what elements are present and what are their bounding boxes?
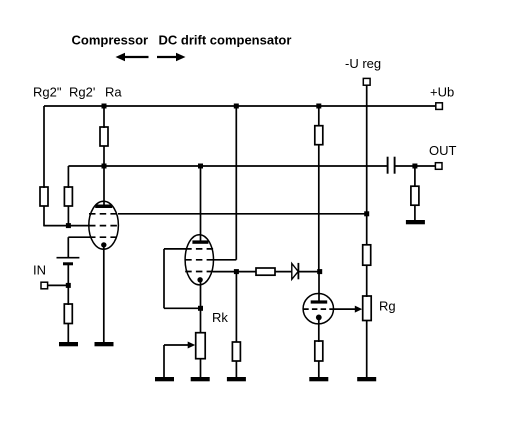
node junction anode V2 on y166 bus: [198, 164, 203, 169]
resistor input bias: [64, 304, 72, 324]
resistor V3 anode load: [315, 126, 323, 145]
wire V2 cathode to Rk: [200, 280, 202, 334]
label Compressor: [72, 32, 149, 47]
ground Rg: [357, 377, 376, 381]
wire Rg pot to ground: [366, 321, 368, 378]
resistor V3 cathode: [315, 341, 323, 361]
label OUT: [429, 143, 457, 158]
wire -U reg vertical: [366, 85, 368, 245]
label Rg2': [69, 85, 95, 100]
wire screen bus V1 to -U reg line: [118, 213, 367, 215]
tube V2 cathode dot: [197, 277, 202, 282]
wire load resistor to ground: [414, 205, 416, 220]
wire OUT junction to load resistor: [414, 166, 416, 187]
wire Ra to anode bus: [103, 146, 105, 166]
node junction diode / V3 anode: [317, 269, 322, 274]
resistor series (suppressor to diode): [256, 268, 275, 275]
wire anode bus y=166 to output capacitor: [68, 165, 387, 167]
tube V1 envelope: [89, 201, 119, 249]
wire diode junction to V3 anode: [318, 272, 320, 301]
battery positive plate: [57, 257, 80, 259]
label +Ub: [430, 85, 454, 100]
node junction cathode / feedback: [198, 306, 203, 311]
svg-text:Rg2': Rg2': [69, 85, 95, 100]
label Rg: [379, 299, 396, 314]
wire +Ub bus to Ra: [103, 106, 105, 128]
wire input resistor to ground: [67, 324, 69, 343]
label IN: [33, 263, 46, 278]
tube V2 screen grid (dashed): [185, 259, 213, 261]
wire capacitor to OUT terminal: [395, 165, 436, 167]
tube V3 cathode dot: [316, 315, 322, 321]
terminal IN: [41, 282, 48, 289]
wire junction to input resistor: [67, 285, 69, 305]
node junction anode resistor top on +Ub bus: [316, 104, 321, 109]
terminal +Ub: [436, 103, 443, 110]
svg-text:OUT: OUT: [429, 143, 457, 158]
wire +Ub bus to anode resistor of V3: [318, 106, 320, 127]
potentiometer Rg: [363, 296, 372, 321]
wire Rg2" to grid line: [43, 206, 45, 226]
tube V3 envelope: [303, 294, 333, 324]
ground Rk wiper: [155, 377, 174, 381]
battery negative plate: [63, 262, 73, 265]
svg-text:Rk: Rk: [212, 310, 228, 325]
wire Rg2' bottom to grid junction: [67, 206, 69, 226]
wire suppressor V1 to battery: [68, 237, 90, 258]
svg-text:Rg2": Rg2": [33, 85, 62, 100]
node junction IN: [66, 283, 71, 288]
node junction anode V1 on y166 bus: [102, 164, 107, 169]
wire series resistor to diode: [275, 271, 292, 273]
svg-text:IN: IN: [33, 263, 46, 278]
ground V1 cathode: [95, 342, 114, 346]
wire anode lead of V1: [103, 166, 105, 206]
svg-text:Rg: Rg: [379, 299, 396, 314]
svg-text:Compressor: Compressor: [72, 32, 149, 47]
ground input branch: [59, 342, 78, 346]
label -U reg: [345, 56, 381, 71]
label Ra: [105, 85, 122, 100]
wire V2 grid feedback loop: [164, 249, 200, 308]
tube V1 control grid (dashed): [89, 225, 118, 227]
wire control-grid line of tube V1: [44, 225, 90, 227]
resistor Ra: [100, 127, 108, 146]
node junction Rg2' / grid: [66, 223, 71, 228]
arrow left (compressor direction): [116, 53, 149, 61]
node junction V2 screen on +Ub bus: [234, 104, 239, 109]
node junction OUT / load resistor: [412, 164, 417, 169]
svg-text:Ra: Ra: [105, 85, 122, 100]
tube V3 grid (dashed): [303, 308, 333, 310]
wire anode lead of V2: [200, 166, 202, 242]
ground Rk: [191, 377, 210, 381]
svg-text:-U reg: -U reg: [345, 56, 381, 71]
wire dropper to Rg pot: [366, 265, 368, 297]
capacitor output coupling: [388, 157, 395, 174]
terminal OUT: [435, 163, 442, 170]
wire V3 cathode resistor to ground: [318, 361, 320, 377]
wire Rk bottom to ground: [200, 359, 202, 378]
wire left vertical to Rg2": [43, 106, 45, 188]
resistor Rg2": [40, 187, 48, 206]
tube V3 anode plate: [311, 300, 328, 303]
resistor -U reg dropper: [363, 245, 371, 265]
svg-text:+Ub: +Ub: [430, 85, 454, 100]
wire pull-down resistor to ground: [235, 361, 237, 377]
resistor Rg2': [64, 187, 72, 206]
tube V1 cathode dot: [101, 242, 106, 247]
wire V3 cathode to resistor: [318, 317, 320, 342]
node junction Ra top on +Ub bus: [102, 104, 107, 109]
arrow right (DC drift compensator direction): [157, 53, 186, 61]
wire Rg2' top to screen bus y166: [67, 166, 69, 188]
tube V1 anode plate: [95, 205, 112, 209]
ground V3 cathode: [309, 377, 328, 381]
tube V1 suppressor grid (dashed): [89, 236, 118, 238]
wire V1 cathode to ground: [103, 245, 105, 343]
resistor pull-down: [232, 342, 240, 361]
wire diode to V3 anode junction: [298, 271, 319, 273]
label Rk: [212, 310, 228, 325]
wire +Ub top supply bus: [44, 105, 436, 107]
node junction screen bus / -U reg: [364, 211, 369, 216]
tube V2 envelope: [185, 235, 213, 285]
ground pull-down: [227, 377, 246, 381]
wire battery to IN junction: [67, 265, 69, 286]
wire anode resistor down to diode junction: [318, 145, 320, 272]
tube V2 control grid (dashed): [185, 248, 213, 250]
terminal -U reg: [363, 78, 370, 85]
wire IN terminal to junction: [48, 284, 69, 286]
tube V2 anode plate: [192, 240, 208, 243]
diode D1: [292, 263, 299, 279]
wire Rk wiper arm: [164, 342, 195, 378]
tube V1 screen grid (dashed): [89, 213, 118, 215]
wire V2 screen to +Ub bus: [213, 106, 236, 260]
potentiometer Rk: [196, 333, 206, 359]
resistor output load: [411, 186, 419, 205]
ground output load: [406, 220, 425, 224]
node junction suppressor / pull-down: [234, 269, 239, 274]
label DC drift compensator: [159, 32, 292, 47]
label Rg2": [33, 85, 62, 100]
tube V2 suppressor grid (dashed): [185, 271, 213, 273]
wire V2 suppressor to series resistor: [213, 271, 256, 273]
wire pull-down resistor top: [235, 272, 237, 343]
wire V3 grid to Rg wiper: [333, 306, 362, 313]
svg-text:DC drift compensator: DC drift compensator: [159, 32, 292, 47]
